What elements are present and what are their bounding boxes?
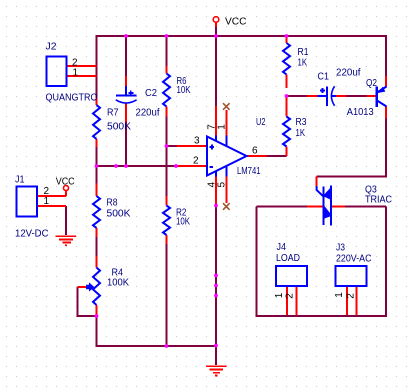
- ground symbol bottom: [206, 366, 226, 375]
- svg-text:1: 1: [44, 196, 50, 207]
- capacitor C1 curved plate: [331, 86, 334, 106]
- svg-text:1: 1: [217, 124, 228, 130]
- junction pin4/vertical: [214, 204, 218, 208]
- wire R6 bottom to pin3 junction and down to R2: [166, 116, 168, 196]
- wire R4 wiper loop: [78, 287, 97, 316]
- R8 pin leads: [96, 184, 98, 197]
- capacitor C2 top plate: [116, 95, 137, 97]
- op-amp pin 1 stub inside: [225, 136, 227, 147]
- wire rail down to op-amp pin 7: [215, 36, 217, 106]
- wire triac MT1 right to loop: [345, 206, 386, 208]
- wire R4 bottom junction down and bottom bus to ground: [97, 316, 217, 346]
- op-amp pin 3 lead: [177, 145, 207, 147]
- no-connect X on op-amp pin 5: [223, 203, 230, 210]
- wire bus (inverting input net): [97, 165, 178, 167]
- svg-text:2: 2: [193, 156, 199, 167]
- ground symbol at J1: [56, 236, 76, 245]
- wire R7 bottom to bus: [96, 146, 98, 166]
- svg-text:LM741: LM741: [237, 166, 261, 177]
- svg-text:2: 2: [346, 293, 357, 299]
- op-amp pin 4 lead: [215, 176, 217, 206]
- transistor Q2 base bar: [375, 87, 378, 108]
- junction bottom bus/R2: [165, 344, 169, 348]
- wire R2 bottom to bottom bus: [166, 244, 168, 346]
- wire VCC rail top with right drop to Q2 emitter: [97, 36, 387, 76]
- capacitor C1 left lead blue: [318, 95, 327, 97]
- op-amp pin 7 stub inside: [215, 136, 217, 142]
- Q2 base pin lead: [367, 95, 376, 97]
- svg-text:A1013: A1013: [347, 107, 374, 118]
- op-amp U2 triangle: [207, 137, 247, 176]
- op-amp pin 4 stub inside: [215, 171, 217, 177]
- C1 left pin lead: [307, 95, 318, 97]
- C1 right pin lead: [336, 95, 346, 97]
- wire R8 bottom to R4 top: [96, 237, 98, 257]
- J2 pin 1 lead: [67, 75, 97, 77]
- wire op-amp pin 4 down to bottom bus and ground stem: [215, 206, 217, 366]
- svg-text:10K: 10K: [176, 217, 190, 228]
- svg-text:500K: 500K: [107, 209, 131, 220]
- transistor Q2 collector diagonal: [377, 101, 387, 107]
- wire R6 top from rail: [166, 35, 168, 67]
- svg-text:R7: R7: [107, 108, 119, 119]
- op-amp pin 5 lead: [225, 176, 227, 203]
- op-amp pin 7 lead: [215, 106, 217, 136]
- resistor R6 zigzag: [163, 74, 170, 107]
- wire C2 bottom to bus: [125, 122, 127, 166]
- R3 pin leads: [286, 96, 288, 117]
- capacitor C2 curved plate: [116, 100, 137, 103]
- wire VCC stem to rail: [215, 26, 217, 36]
- op-amp minus input marker: [209, 166, 213, 168]
- J1 pin 2 lead: [37, 195, 66, 197]
- junction bus/C2: [124, 164, 128, 168]
- R4 wiper lead red: [78, 286, 87, 288]
- junction bus/pin2: [174, 164, 178, 168]
- triac Q3 gate diagonal: [317, 186, 324, 196]
- Q2 emitter pin lead: [385, 76, 387, 87]
- wire C1 to Q2 base: [346, 95, 367, 97]
- VCC power symbol at J1: [64, 186, 69, 191]
- triac MT2 pin lead: [307, 206, 323, 208]
- capacitor C1 flat plate: [326, 87, 328, 107]
- C2 pin leads: [125, 76, 127, 86]
- potentiometer R4 zigzag: [93, 268, 100, 306]
- wire junction to op-amp pin 3: [167, 145, 178, 147]
- junction rail/R1: [285, 34, 289, 38]
- wire load loop rectangle: [257, 207, 387, 317]
- svg-text:10K: 10K: [177, 85, 191, 96]
- triac Q3 lower triangle: [323, 205, 332, 219]
- potentiometer R4 wiper arrow: [87, 284, 94, 291]
- resistor R7 zigzag: [93, 105, 100, 139]
- capacitor C1 plus sign: [320, 88, 325, 93]
- op-amp pin 1 lead: [225, 110, 227, 136]
- svg-text:100K: 100K: [107, 278, 129, 289]
- svg-text:1K: 1K: [296, 128, 306, 139]
- triac gate pin lead: [316, 177, 318, 187]
- junction bus/R7-R8: [95, 164, 99, 168]
- J1 VCC stem: [65, 191, 67, 197]
- junction vertical b: [214, 284, 218, 288]
- svg-text:1: 1: [73, 68, 79, 79]
- junction bus mid: [114, 164, 118, 168]
- op-amp plus input marker: [210, 145, 215, 150]
- capacitor C1 right lead blue: [332, 95, 337, 97]
- junction rail/C2: [124, 34, 128, 38]
- transistor Q2 emitter arrow: [378, 88, 385, 93]
- svg-text:12V-DC: 12V-DC: [15, 229, 49, 240]
- wire Q2 collector down to triac gate corner: [317, 118, 386, 177]
- svg-text:C2: C2: [145, 88, 157, 99]
- svg-text:1: 1: [274, 292, 285, 298]
- connector J3 box: [336, 266, 367, 286]
- junction vertical a: [214, 274, 218, 278]
- svg-text:TRIAC: TRIAC: [365, 195, 392, 206]
- J2 pin 2 lead: [67, 65, 97, 67]
- svg-text:U2: U2: [256, 117, 266, 128]
- wire triac MT2 left to loop: [257, 206, 308, 208]
- junction rail/VCC vertical: [214, 34, 218, 38]
- svg-text:220V-AC: 220V-AC: [336, 254, 372, 265]
- triac Q3 left bar: [322, 187, 324, 226]
- R4 pin leads: [96, 256, 98, 268]
- junction vertical c: [214, 294, 218, 298]
- wire bus to R8 top: [96, 166, 98, 184]
- connector J1 box: [17, 187, 38, 217]
- op-amp pin 2 lead: [177, 165, 208, 167]
- svg-text:2: 2: [285, 293, 296, 299]
- top VCC stem: [215, 22, 217, 27]
- J3 pin leads: [346, 286, 348, 315]
- op-amp pin 6 lead: [247, 155, 267, 157]
- triac Q3 upper triangle: [323, 186, 332, 200]
- junction rail/R6: [165, 34, 169, 38]
- R2 pin leads: [166, 196, 168, 206]
- triac MT1 pin lead: [332, 206, 345, 208]
- svg-text:LOAD: LOAD: [276, 253, 300, 264]
- R7 pin leads: [96, 97, 98, 105]
- triac Q3 right bar: [330, 186, 332, 226]
- J4 pin leads: [286, 286, 288, 315]
- svg-text:J4: J4: [277, 242, 287, 253]
- wire left vertical from rail through J2 pins to R7: [96, 35, 98, 98]
- R1 pin leads: [286, 37, 288, 44]
- resistor R1 zigzag: [283, 43, 290, 75]
- svg-text:220uf: 220uf: [336, 68, 361, 79]
- svg-text:J2: J2: [46, 42, 57, 53]
- svg-text:R1: R1: [298, 47, 309, 58]
- capacitor C2 plus sign: [128, 91, 133, 96]
- junction R1/R3/C1: [285, 94, 289, 98]
- Q2 collector pin lead: [385, 107, 387, 119]
- junction R6/R2/pin3: [165, 144, 169, 148]
- svg-text:J3: J3: [336, 243, 345, 254]
- wire op-amp output to R3 bottom corner: [267, 155, 287, 157]
- svg-text:J1: J1: [15, 175, 25, 186]
- resistor R8 zigzag: [93, 196, 100, 228]
- capacitor C2 top lead blue: [125, 86, 127, 95]
- svg-text:1: 1: [334, 292, 345, 298]
- wire C2 top from rail: [125, 35, 127, 77]
- transistor Q2 emitter diagonal: [377, 87, 387, 93]
- svg-text:R3: R3: [296, 117, 307, 128]
- no-connect X on op-amp pin 1: [223, 103, 230, 110]
- svg-text:QUANGTRO: QUANGTRO: [46, 93, 98, 104]
- svg-text:R8: R8: [107, 198, 118, 209]
- op-amp pin 5 stub inside: [225, 166, 227, 177]
- wire R1 bottom junction to C1: [287, 95, 308, 97]
- resistor R2 zigzag: [163, 206, 170, 236]
- R6 pin leads: [166, 66, 168, 74]
- svg-text:3: 3: [194, 136, 200, 147]
- J1 pin 1 lead: [37, 205, 66, 207]
- wire J1 pin1 down to ground: [65, 206, 67, 235]
- VCC power symbol top: [213, 17, 219, 23]
- svg-text:1K: 1K: [298, 58, 308, 69]
- connector J4 box: [276, 266, 307, 286]
- svg-text:Q2: Q2: [366, 78, 377, 89]
- junction R4/bottom: [95, 314, 99, 318]
- junction bottom bus/ground: [214, 344, 218, 348]
- connector J2 box: [47, 57, 67, 87]
- svg-text:220uf: 220uf: [136, 108, 160, 119]
- svg-text:VCC: VCC: [225, 17, 247, 28]
- resistor R3 zigzag: [283, 117, 290, 147]
- svg-text:6: 6: [252, 146, 258, 157]
- svg-text:C1: C1: [318, 72, 330, 83]
- svg-text:5: 5: [217, 181, 228, 187]
- svg-text:500K: 500K: [107, 122, 131, 133]
- svg-text:VCC: VCC: [56, 177, 75, 188]
